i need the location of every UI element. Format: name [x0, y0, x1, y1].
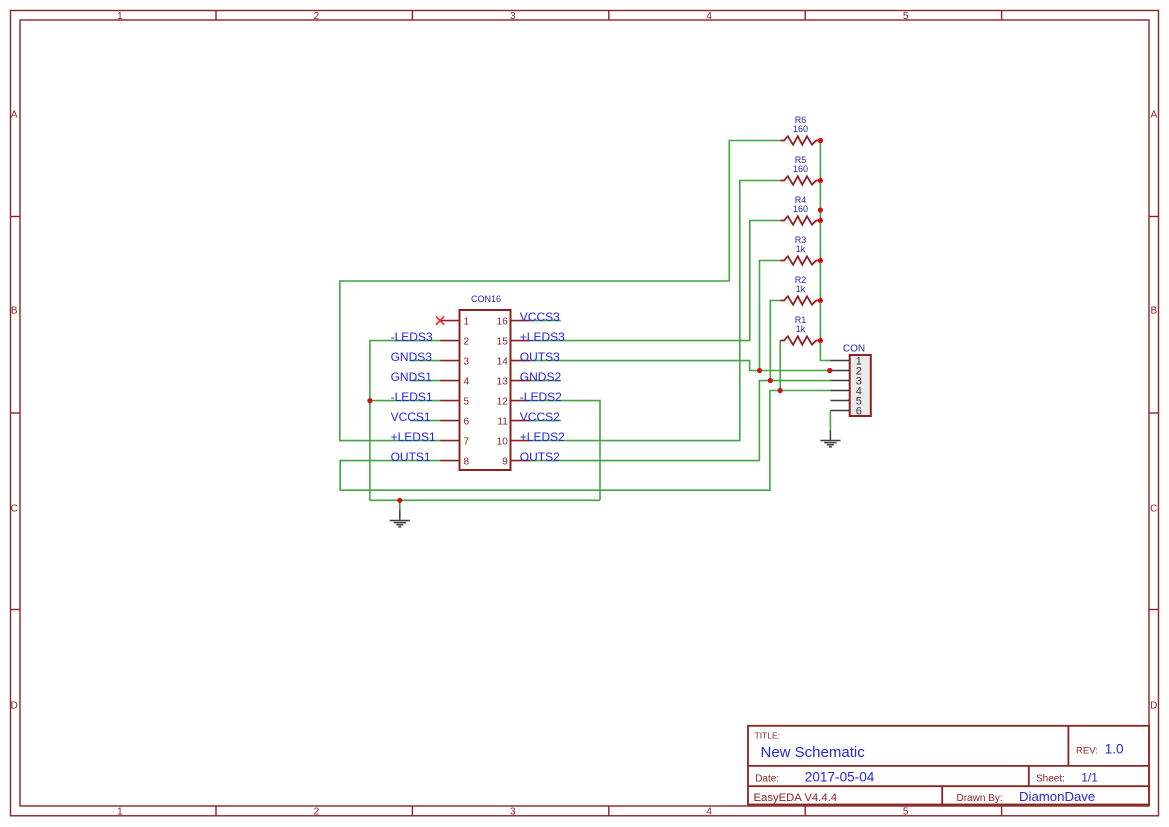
resistor R6 [780, 136, 819, 144]
svg-text:D: D [1150, 701, 1157, 712]
svg-text:14: 14 [497, 357, 509, 368]
connector CON16 body [460, 310, 511, 470]
resistor R1 [780, 336, 819, 344]
pin 4 stub [440, 380, 459, 382]
svg-text:Date:: Date: [755, 774, 779, 785]
pin 7 stub [440, 440, 459, 442]
wire OUTS2 pin9 to CON pin3 row [530, 381, 830, 461]
svg-text:15: 15 [497, 337, 509, 348]
resistor labels [793, 115, 808, 334]
svg-text:CON16: CON16 [471, 294, 501, 304]
svg-text:1.0: 1.0 [1105, 742, 1124, 757]
wire ground stub [399, 500, 401, 510]
ground symbol at CON [820, 430, 840, 446]
svg-text:3: 3 [510, 807, 516, 818]
CON pin 6 stub [830, 410, 849, 412]
svg-text:D: D [11, 701, 18, 712]
pin 16 stub [511, 320, 531, 322]
wire GNDS3 stub pin3 [410, 360, 440, 362]
pin 15 stub [511, 340, 531, 342]
junction rail R3 [818, 258, 823, 263]
pin 6 stub [440, 420, 459, 422]
wire -LEDS1 pin5 [370, 400, 440, 402]
svg-text:6: 6 [464, 417, 470, 428]
pin 8 stub [440, 460, 459, 462]
pin 14 stub [511, 360, 531, 362]
svg-text:3: 3 [464, 357, 470, 368]
svg-text:Sheet:: Sheet: [1036, 774, 1065, 785]
svg-text:-LEDS1: -LEDS1 [391, 390, 433, 404]
wire +LEDS2 pin10 to R5 [530, 181, 780, 441]
wire R2 bottom to CON pin3 row [770, 301, 780, 381]
junction rail R1 [818, 338, 823, 343]
junction rail R6 [818, 138, 823, 143]
pin 13 stub [511, 380, 531, 382]
connector CON body [850, 355, 871, 416]
svg-text:+LEDS3: +LEDS3 [520, 330, 565, 344]
svg-text:+LEDS1: +LEDS1 [391, 430, 436, 444]
resistor R3 [780, 256, 819, 264]
CON pin 2 stub [830, 370, 849, 372]
title block [748, 726, 1149, 805]
svg-text:1k: 1k [796, 244, 806, 254]
svg-text:VCCS3: VCCS3 [520, 310, 560, 324]
svg-text:TITLE:: TITLE: [755, 731, 781, 741]
svg-text:C: C [1150, 504, 1157, 515]
svg-text:11: 11 [497, 417, 508, 428]
svg-text:5: 5 [903, 11, 909, 22]
svg-text:+LEDS2: +LEDS2 [520, 430, 565, 444]
svg-text:A: A [11, 110, 18, 121]
svg-text:VCCS1: VCCS1 [391, 410, 431, 424]
wire net -LEDS3 pin2 to ground riser [370, 341, 440, 501]
junction CON pin2 [827, 368, 832, 373]
wire VCCS1 stub pin6 [410, 420, 440, 422]
svg-text:-LEDS2: -LEDS2 [520, 390, 562, 404]
svg-text:C: C [11, 504, 18, 515]
resistor R4 [780, 216, 819, 224]
pin 1 stub [440, 320, 459, 322]
wire R3 bottom to CON pin2 row [760, 261, 781, 371]
junction rail R5 [818, 178, 823, 183]
pin 2 stub [440, 340, 459, 342]
svg-text:160: 160 [793, 124, 808, 134]
pin 5 stub [440, 400, 459, 402]
junction R1 bottom [778, 388, 783, 393]
pin numbers right [497, 317, 509, 468]
junction rail extra [818, 207, 823, 212]
svg-text:GNDS3: GNDS3 [391, 350, 433, 364]
wire OUTS3 pin14 to CON pin2 row [530, 361, 830, 371]
svg-text:VCCS2: VCCS2 [520, 410, 560, 424]
wire GNDS2 stub pin13 [530, 380, 561, 382]
svg-text:4: 4 [706, 807, 712, 818]
wire VCCS2 stub pin11 [530, 420, 561, 422]
svg-text:EasyEDA V4.4.4: EasyEDA V4.4.4 [754, 792, 838, 804]
svg-text:8: 8 [464, 457, 470, 468]
junction R2 bottom [768, 378, 773, 383]
junction rail R2 [818, 298, 823, 303]
svg-text:4: 4 [706, 11, 712, 22]
svg-text:4: 4 [464, 377, 470, 388]
wire R1 bottom to CON pin4 row [779, 341, 781, 391]
svg-text:OUTS1: OUTS1 [391, 450, 431, 464]
svg-text:CON: CON [843, 343, 865, 354]
svg-text:OUTS2: OUTS2 [520, 450, 560, 464]
resistor R5 [780, 176, 819, 184]
pin 12 stub [511, 400, 531, 402]
svg-text:-LEDS3: -LEDS3 [391, 330, 433, 344]
wire ground rail [370, 499, 600, 501]
pin 10 stub [511, 440, 531, 442]
svg-text:6: 6 [856, 405, 862, 417]
wire GNDS1 stub pin4 [410, 380, 440, 382]
svg-text:9: 9 [502, 457, 508, 468]
svg-text:2: 2 [464, 337, 470, 348]
CON pin 1 stub [830, 360, 849, 362]
junction -LEDS1 [367, 398, 372, 403]
svg-text:OUTS3: OUTS3 [520, 350, 560, 364]
svg-text:1: 1 [117, 807, 123, 818]
pin 11 stub [511, 420, 531, 422]
wire CON pin6 to ground [829, 411, 831, 431]
wire +LEDS1 pin7 to R6 [340, 141, 781, 441]
svg-text:2017-05-04: 2017-05-04 [805, 770, 875, 785]
svg-text:DiamonDave: DiamonDave [1019, 789, 1095, 804]
svg-text:7: 7 [464, 437, 470, 448]
svg-text:2: 2 [314, 11, 320, 22]
svg-text:1k: 1k [796, 324, 806, 334]
svg-text:12: 12 [497, 397, 509, 408]
svg-text:Drawn By:: Drawn By: [957, 793, 1003, 804]
svg-text:1/1: 1/1 [1081, 771, 1098, 785]
svg-text:10: 10 [497, 437, 509, 448]
CON pin numbers [856, 355, 862, 417]
svg-text:1: 1 [117, 11, 123, 22]
no-connect flag on pin 1 [436, 316, 444, 324]
CON pin 4 stub [830, 390, 849, 392]
ground symbol at IC [390, 510, 410, 527]
svg-text:1: 1 [464, 317, 470, 328]
resistor R2 [780, 296, 819, 304]
junction ground [397, 498, 402, 503]
svg-text:New Schematic: New Schematic [761, 744, 866, 761]
svg-text:13: 13 [497, 377, 509, 388]
svg-text:B: B [1150, 305, 1157, 316]
svg-text:GNDS1: GNDS1 [391, 370, 433, 384]
svg-text:160: 160 [793, 204, 808, 214]
svg-text:B: B [11, 305, 18, 316]
svg-text:3: 3 [510, 11, 516, 22]
svg-text:2: 2 [314, 807, 320, 818]
pin numbers left [464, 317, 470, 468]
svg-text:GNDS2: GNDS2 [520, 370, 562, 384]
svg-text:5: 5 [464, 397, 470, 408]
CON pin 3 stub [830, 380, 849, 382]
wire +LEDS3 pin15 to R4 [530, 221, 780, 341]
pin 3 stub [440, 360, 459, 362]
wire resistor right rail to CON pin1 [820, 141, 830, 361]
CON pin 5 stub [830, 400, 849, 402]
svg-text:160: 160 [793, 164, 808, 174]
svg-text:REV:: REV: [1076, 746, 1098, 757]
pin 9 stub [511, 460, 531, 462]
wire VCCS3 stub pin16 [530, 320, 561, 322]
junction dots [367, 138, 832, 503]
svg-text:1k: 1k [796, 284, 806, 294]
svg-text:A: A [1150, 110, 1157, 121]
junction R3 bottom [757, 368, 762, 373]
svg-text:5: 5 [903, 807, 909, 818]
svg-text:16: 16 [497, 317, 509, 328]
junction rail R4 [818, 218, 823, 223]
wire OUTS1 pin8 to CON pin4 row [340, 391, 830, 491]
wire -LEDS2 pin12 to ground rail [530, 401, 600, 501]
